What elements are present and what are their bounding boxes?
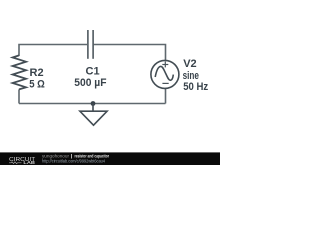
- voltage source V2 circle: [151, 60, 179, 88]
- source frequency 50 Hz: [183, 81, 208, 93]
- svg-text:LAB: LAB: [23, 160, 35, 165]
- CircuitLab logo LAB: [23, 160, 35, 165]
- wire right-bottom: source bottom to bottom rail: [165, 88, 167, 103]
- source label V2: [183, 58, 196, 70]
- node junction dot: [91, 101, 96, 106]
- voltage source sine wave: [155, 66, 173, 80]
- minus polarity mark: [162, 82, 168, 84]
- svg-text:C1: C1: [86, 65, 100, 77]
- svg-text:V2: V2: [183, 58, 196, 70]
- wire left-bottom lead: [18, 89, 20, 103]
- wire top-left: left lead up and top wire to capacitor: [19, 45, 87, 57]
- footer band: [0, 152, 220, 165]
- source type sine: [183, 70, 199, 82]
- svg-text:R2: R2: [30, 67, 44, 79]
- svg-text:500 µF: 500 µF: [74, 77, 106, 89]
- svg-text:50 Hz: 50 Hz: [183, 81, 208, 93]
- capacitor value 500 uF: [74, 77, 106, 89]
- capacitor C1 plates: [88, 30, 93, 59]
- wire bottom rail: [19, 103, 166, 105]
- wire top-right: capacitor to top-right corner down to source top: [94, 45, 166, 61]
- svg-text:http://circuitlab.com/c/9992wb: http://circuitlab.com/c/9992wbt6cau4: [42, 158, 105, 163]
- footer credit line username and title: [42, 153, 109, 158]
- CircuitLab logo zigzag: [9, 162, 22, 164]
- plus polarity mark: [162, 62, 168, 68]
- CircuitLab logo CIRCUIT: [9, 157, 36, 163]
- svg-text:5 Ω: 5 Ω: [29, 78, 45, 90]
- resistor label R2: [30, 67, 44, 79]
- footer url line: [42, 158, 105, 163]
- ground: [80, 104, 107, 126]
- resistor value 5 ohm: [29, 78, 45, 90]
- resistor R2 zigzag: [13, 55, 26, 89]
- capacitor label C1: [86, 65, 100, 77]
